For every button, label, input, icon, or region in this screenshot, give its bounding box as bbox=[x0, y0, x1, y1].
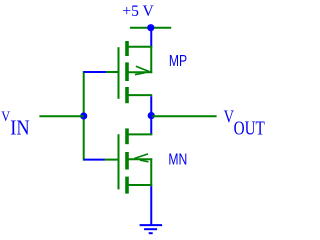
MN channel middle segment bbox=[125, 152, 129, 170]
MP bulk lead bbox=[129, 71, 153, 73]
MN arrow lower barb bbox=[140, 160, 149, 162]
wire output node to MN drain (blue) bbox=[150, 116, 152, 135]
MN channel bottom segment bbox=[125, 177, 129, 194]
MP channel bottom segment bbox=[125, 87, 129, 103]
wire MP drain to output node (blue) bbox=[150, 96, 152, 115]
wire VIN input (green) bbox=[39, 115, 83, 117]
MN bulk-source tie vertical bbox=[150, 159, 152, 186]
label VOUT bbox=[224, 108, 266, 139]
ground bbox=[140, 225, 163, 233]
svg-text:V: V bbox=[224, 108, 235, 126]
node OUT junction dot bbox=[148, 112, 155, 119]
wire bus to MN gate: blue segment bbox=[84, 159, 105, 161]
MN gate lead (green part) bbox=[105, 159, 118, 161]
svg-text:+5 V: +5 V bbox=[122, 3, 154, 20]
MN gate bar bbox=[118, 134, 120, 189]
MP gate lead (green part) bbox=[105, 71, 118, 73]
MP gate bar bbox=[118, 47, 120, 99]
wire output node to VOUT (green) bbox=[151, 115, 216, 117]
label VIN bbox=[1, 108, 29, 140]
MP channel top segment bbox=[125, 41, 129, 56]
MP drain lead (bottom) bbox=[129, 94, 153, 96]
wire bus to MP gate: blue segment bbox=[84, 71, 106, 73]
wire VDD to MP drain (blue) bbox=[150, 28, 152, 48]
label +5 V bbox=[122, 3, 154, 20]
MP bulk-source tie vertical bbox=[150, 47, 152, 73]
node VDD junction dot bbox=[147, 24, 154, 31]
svg-text:OUT: OUT bbox=[234, 116, 266, 138]
wire input gate bus vertical (green) bbox=[83, 71, 85, 161]
MN source lead (bottom) bbox=[129, 184, 153, 186]
transistor Q1 MP (PMOS) bbox=[105, 41, 152, 103]
MP arrow lower barb bbox=[135, 73, 145, 75]
MP source lead (top) bbox=[129, 46, 153, 48]
label MN bbox=[168, 151, 187, 169]
MN arrow upper barb bbox=[134, 154, 148, 159]
svg-text:V: V bbox=[1, 108, 10, 124]
svg-text:IN: IN bbox=[10, 116, 29, 139]
label MP bbox=[169, 53, 187, 71]
MP channel middle segment bbox=[125, 62, 129, 81]
MN drain lead (top) bbox=[129, 133, 153, 135]
MP arrow upper barb bbox=[136, 66, 150, 72]
svg-text:MP: MP bbox=[169, 53, 187, 71]
wire MN source to ground (blue) bbox=[150, 186, 152, 225]
power +5V rail bbox=[130, 27, 171, 29]
node IN junction dot bbox=[80, 112, 87, 119]
svg-text:MN: MN bbox=[168, 151, 187, 169]
MN bulk lead bbox=[129, 158, 153, 160]
transistor Q2 MN (NMOS) bbox=[105, 128, 153, 193]
MN channel top segment bbox=[125, 128, 129, 144]
